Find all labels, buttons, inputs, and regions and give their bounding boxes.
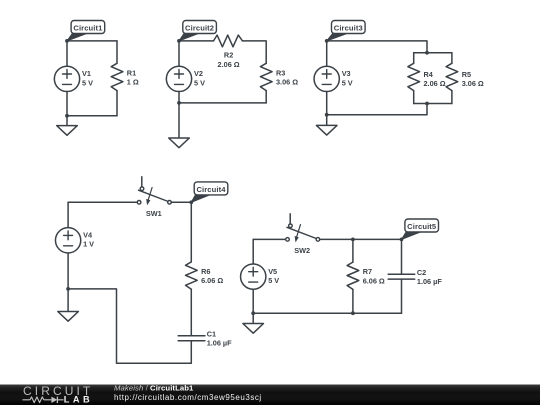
resistor R3 [260,63,272,103]
node junction bottom circuit2 [177,101,181,105]
wire C1 return to V4 [68,289,191,363]
wire top rail circuit1 [67,40,117,42]
circuit title callout Circuit2 [179,21,216,41]
svg-text:SW1: SW1 [146,209,162,218]
wire bottom rail circuit5 [253,312,401,314]
wire bottom rail circuit1 [67,115,117,117]
circuit title callout Circuit4 [191,182,227,202]
svg-text:V2: V2 [194,69,203,78]
ground GND4 [58,289,79,321]
node junction parallel bottom circuit3 [425,102,429,106]
svg-text:SW2: SW2 [294,246,310,255]
svg-text:R1: R1 [127,69,136,78]
svg-text:5 V: 5 V [194,78,205,87]
svg-text:R7: R7 [363,267,372,276]
svg-text:R5: R5 [462,70,471,79]
ground GND1 [57,116,78,136]
voltage source V5 [241,239,266,313]
svg-text:Circuit4: Circuit4 [196,185,226,194]
svg-text:R4: R4 [424,70,434,79]
node junction top circuit2 [177,39,181,43]
voltage source V4 [55,202,80,289]
wire SW1 to node circuit4 [171,201,191,203]
switch SW2 [286,214,320,243]
svg-text:R6: R6 [201,267,210,276]
svg-text:Circuit3: Circuit3 [334,24,363,33]
svg-text:6.06 Ω: 6.06 Ω [363,276,385,285]
node junction bottom circuit5 [251,311,255,315]
voltage source V3 [314,41,339,115]
wire parallel top bar circuit3 [414,52,452,54]
svg-text:2.06 Ω: 2.06 Ω [424,79,446,88]
svg-text:1 V: 1 V [83,240,94,249]
svg-text:Circuit1: Circuit1 [73,24,103,33]
wire bottom rail circuit3 [327,104,427,115]
svg-text:R3: R3 [276,69,285,78]
voltage source V1 [54,41,79,116]
ground GND3 [316,115,337,135]
svg-text:R2: R2 [224,51,233,60]
wire V5 to SW2 [253,238,286,240]
wire bottom rail circuit2 [179,102,266,104]
resistor R4 [408,53,420,104]
footer background bar [0,385,540,405]
svg-text:3.06 Ω: 3.06 Ω [462,79,484,88]
resistor R5 [446,53,458,104]
svg-text:1 Ω: 1 Ω [127,78,139,87]
svg-text:http://circuitlab.com/cm3ew95e: http://circuitlab.com/cm3ew95eu3scj [114,393,262,402]
capacitor C1 [178,336,205,341]
wire parallel bottom bar circuit3 [414,103,452,105]
svg-text:LAB: LAB [64,394,93,404]
svg-text:V3: V3 [342,69,351,78]
node junction top circuit3 [325,39,329,43]
svg-text:C2: C2 [417,268,426,277]
svg-text:5 V: 5 V [342,78,353,87]
circuit title callout Circuit3 [327,21,365,41]
ground GND5 [243,313,264,333]
node junction parallel top circuit3 [425,51,429,55]
svg-text:1.06 µF: 1.06 µF [417,277,442,286]
wire top rail circuit3 [327,41,427,53]
node junction top circuit1 [65,39,69,43]
svg-text:3.06 Ω: 3.06 Ω [276,78,298,87]
svg-text:5 V: 5 V [268,276,279,285]
logo diode symbol [51,397,57,403]
resistor R6 [186,202,198,300]
voltage source V2 [166,41,191,103]
node junction bottom circuit4 [66,287,70,291]
wire R2 to R3 circuit2 [243,41,267,63]
circuit title callout Circuit1 [67,21,105,41]
svg-text:V4: V4 [83,231,93,240]
capacitor C2 [388,239,415,313]
node junction C2 top circuit5 [400,238,404,242]
node junction R7 top circuit5 [351,238,355,242]
wire R6 to C1 [190,300,192,336]
wire V4 to SW1 [68,201,137,203]
wire SW2 to C2 node [320,238,402,240]
svg-text:Makeish / CircuitLab1: Makeish / CircuitLab1 [114,383,194,392]
wire node to R2 circuit2 [179,40,214,42]
svg-text:V5: V5 [268,267,277,276]
switch SW1 [137,177,171,206]
svg-text:Circuit5: Circuit5 [407,222,437,231]
svg-text:1.06 µF: 1.06 µF [207,339,232,348]
ground GND2 [169,103,190,148]
logo resistor symbol line [23,397,64,403]
svg-text:V1: V1 [82,69,91,78]
node junction R7 bottom circuit5 [351,311,355,315]
svg-text:5 V: 5 V [82,78,93,87]
resistor R2 [214,35,243,47]
circuit title callout Circuit5 [402,219,439,239]
node junction top circuit4 [189,200,193,204]
resistor R1 [111,41,123,116]
svg-text:6.06 Ω: 6.06 Ω [201,276,223,285]
node junction bottom circuit3 [325,113,329,117]
svg-text:Circuit2: Circuit2 [185,24,214,33]
node junction bottom circuit1 [65,114,69,118]
svg-text:C1: C1 [207,329,216,338]
resistor R7 [347,239,359,313]
svg-text:2.06 Ω: 2.06 Ω [218,60,240,69]
